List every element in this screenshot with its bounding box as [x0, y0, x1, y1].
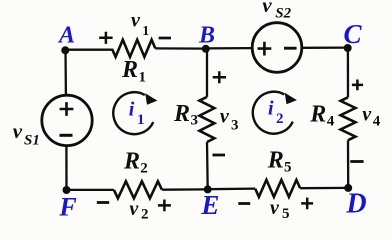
wire A down to vS1: [64, 50, 67, 96]
svg-text:3: 3: [231, 118, 239, 134]
svg-text:F: F: [58, 193, 76, 222]
svg-text:5: 5: [284, 160, 292, 176]
svg-text:i: i: [268, 98, 274, 120]
svg-text:5: 5: [282, 206, 290, 222]
plus sign left of R1: [99, 32, 112, 44]
svg-text:3: 3: [191, 113, 199, 129]
resistor R2: [114, 181, 162, 198]
wire A to R1 (top left rail): [65, 49, 112, 51]
svg-text:1: 1: [137, 112, 145, 128]
svg-text:2: 2: [141, 207, 149, 223]
svg-text:C: C: [343, 19, 362, 49]
plus sign right of v2: [158, 200, 171, 212]
node A dot: [61, 46, 69, 54]
wire B to vS2: [206, 47, 253, 50]
plus sign right of v5: [301, 198, 313, 210]
svg-text:v: v: [262, 0, 272, 17]
svg-text:2: 2: [276, 111, 284, 127]
wire vS2 to C: [301, 46, 348, 49]
minus sign below R4: [350, 160, 363, 163]
svg-text:B: B: [198, 23, 215, 49]
wire E to R5: [208, 187, 256, 190]
vS1 plus sign: [60, 102, 74, 116]
svg-text:v: v: [362, 104, 372, 126]
wire R4 to D: [347, 140, 350, 188]
vS2 minus sign: [284, 47, 297, 50]
resistor R4: [341, 97, 356, 140]
wire R3 to E: [206, 142, 209, 189]
svg-text:4: 4: [373, 114, 381, 130]
svg-text:1: 1: [139, 70, 147, 86]
wire R2 to E: [162, 188, 208, 191]
svg-text:R: R: [123, 149, 140, 175]
mesh current i2 arrow: [253, 92, 297, 134]
wire F to R2: [67, 189, 114, 191]
svg-text:E: E: [200, 190, 219, 220]
svg-text:D: D: [345, 189, 366, 220]
svg-text:A: A: [57, 23, 75, 49]
svg-text:R: R: [267, 148, 284, 174]
plus sign above R3: [213, 71, 226, 83]
minus sign left of v2: [97, 201, 109, 204]
svg-text:S2: S2: [275, 5, 291, 21]
minus sign right of v1: [159, 37, 171, 40]
node D dot: [344, 184, 352, 192]
wire C down to R4: [347, 48, 349, 97]
node E dot: [204, 185, 212, 193]
resistor R3: [199, 97, 214, 142]
wire R1 to B: [155, 47, 206, 49]
wire B down to R3: [206, 49, 208, 97]
svg-text:R: R: [309, 102, 326, 128]
svg-text:R: R: [173, 101, 190, 127]
vS1 minus sign: [60, 134, 73, 137]
node B dot: [202, 45, 210, 53]
svg-text:v: v: [131, 10, 141, 32]
svg-text:1: 1: [142, 24, 149, 39]
svg-text:R: R: [121, 57, 138, 83]
node F dot: [63, 186, 71, 194]
minus sign left of v5: [238, 202, 250, 205]
voltage source vS1: [42, 95, 92, 145]
svg-text:S1: S1: [24, 133, 40, 149]
svg-text:i: i: [129, 99, 135, 121]
wire R5 to D: [300, 187, 348, 190]
resistor R5: [255, 180, 300, 197]
wire vS1 to F: [65, 145, 67, 190]
node C dot: [344, 44, 352, 52]
mesh current i1 arrow: [113, 92, 157, 134]
minus sign below R3: [213, 154, 226, 157]
svg-text:v: v: [220, 106, 230, 128]
plus sign above R4: [352, 80, 363, 91]
resistor R1: [112, 40, 155, 57]
svg-text:v: v: [13, 119, 23, 143]
voltage source vS2: [252, 23, 302, 73]
svg-text:2: 2: [140, 160, 148, 176]
vS2 plus sign: [258, 42, 272, 56]
svg-text:v: v: [270, 197, 280, 219]
svg-text:v: v: [129, 198, 139, 220]
svg-text:4: 4: [327, 114, 335, 130]
